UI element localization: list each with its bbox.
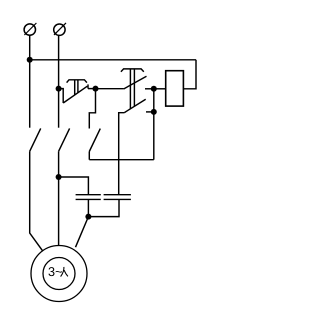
- pushbutton SB2 plunger legs: [129, 69, 131, 109]
- node C (junction dot coil-left): [151, 86, 157, 92]
- contact KM3 top jog from node B: [89, 89, 95, 129]
- wire: vertical C-D down to y160: [153, 89, 155, 160]
- pushbutton SB1 fixed contact tick: [87, 84, 89, 88]
- node J1 (junction dot on wire 1 / rail): [27, 57, 33, 63]
- contact KM3 blade: [89, 129, 100, 152]
- motor label 3~: [48, 267, 61, 276]
- pushbutton SB1 plunger legs: [74, 80, 76, 95]
- contact KM2 blade: [59, 128, 70, 151]
- coil KM left lead: [154, 88, 166, 90]
- node D (junction dot below C): [151, 109, 157, 115]
- node F (junction dot capacitor bottoms): [85, 214, 91, 220]
- terminal X1 (top-left, circle with slash): [24, 23, 36, 35]
- wire: terminal X2 down to contact 2: [58, 36, 60, 128]
- wire: capacitor branch to C1 top: [59, 177, 89, 195]
- wire: y160 horizontal to contact 3 bottom: [89, 159, 154, 161]
- wire: contact KM1 bottom down and slant to motor: [30, 151, 43, 251]
- wire: terminal X1 down to contact 1: [29, 35, 31, 127]
- contact KM1 blade: [30, 128, 41, 151]
- capacitor C1 (run) plates: [76, 194, 101, 196]
- pushbutton SB1 right stub: [88, 88, 96, 90]
- pushbutton SB1 blade: [63, 86, 87, 103]
- motor M outer circle: [31, 246, 87, 302]
- wire: rail right drop to coil right lead: [183, 60, 196, 89]
- pushbutton SB2 cap bar: [121, 69, 144, 72]
- terminal X2 (top-right, circle with slash): [54, 23, 66, 36]
- node A (junction dot wire2 / control line): [56, 86, 62, 92]
- motor label ren character: [61, 267, 68, 277]
- node B (junction dot control line): [93, 86, 99, 92]
- capacitor C2 bottom lead: [88, 199, 119, 216]
- wire: node F slant to motor: [76, 217, 89, 248]
- wire: node B to pushbutton SB2: [96, 88, 124, 90]
- capacitor C1 bottom lead: [87, 199, 89, 216]
- pushbutton SB2 lower blade: [124, 99, 146, 112]
- capacitor C2 (start) plates: [104, 194, 131, 196]
- motor M inner circle: [43, 258, 75, 290]
- wire: top rail from node J1 to right: [30, 59, 196, 61]
- pushbutton SB2 (start, NO) upper blade: [124, 76, 147, 89]
- pushbutton SB2 lower right stub: [146, 111, 154, 113]
- contact KM3 bottom wire: [88, 152, 90, 160]
- node E (junction dot wire2 / capacitor branch): [56, 174, 62, 180]
- coil KM (rectangle): [166, 71, 184, 106]
- pushbutton SB2 upper right stub: [145, 88, 154, 90]
- wire: contact KM2 bottom down to motor: [58, 151, 60, 245]
- pushbutton SB2 lower contact left lead: [119, 113, 125, 195]
- pushbutton SB1 (stop, NC) lead stub and jog: [59, 89, 64, 103]
- pushbutton SB1 cap bar: [67, 80, 87, 83]
